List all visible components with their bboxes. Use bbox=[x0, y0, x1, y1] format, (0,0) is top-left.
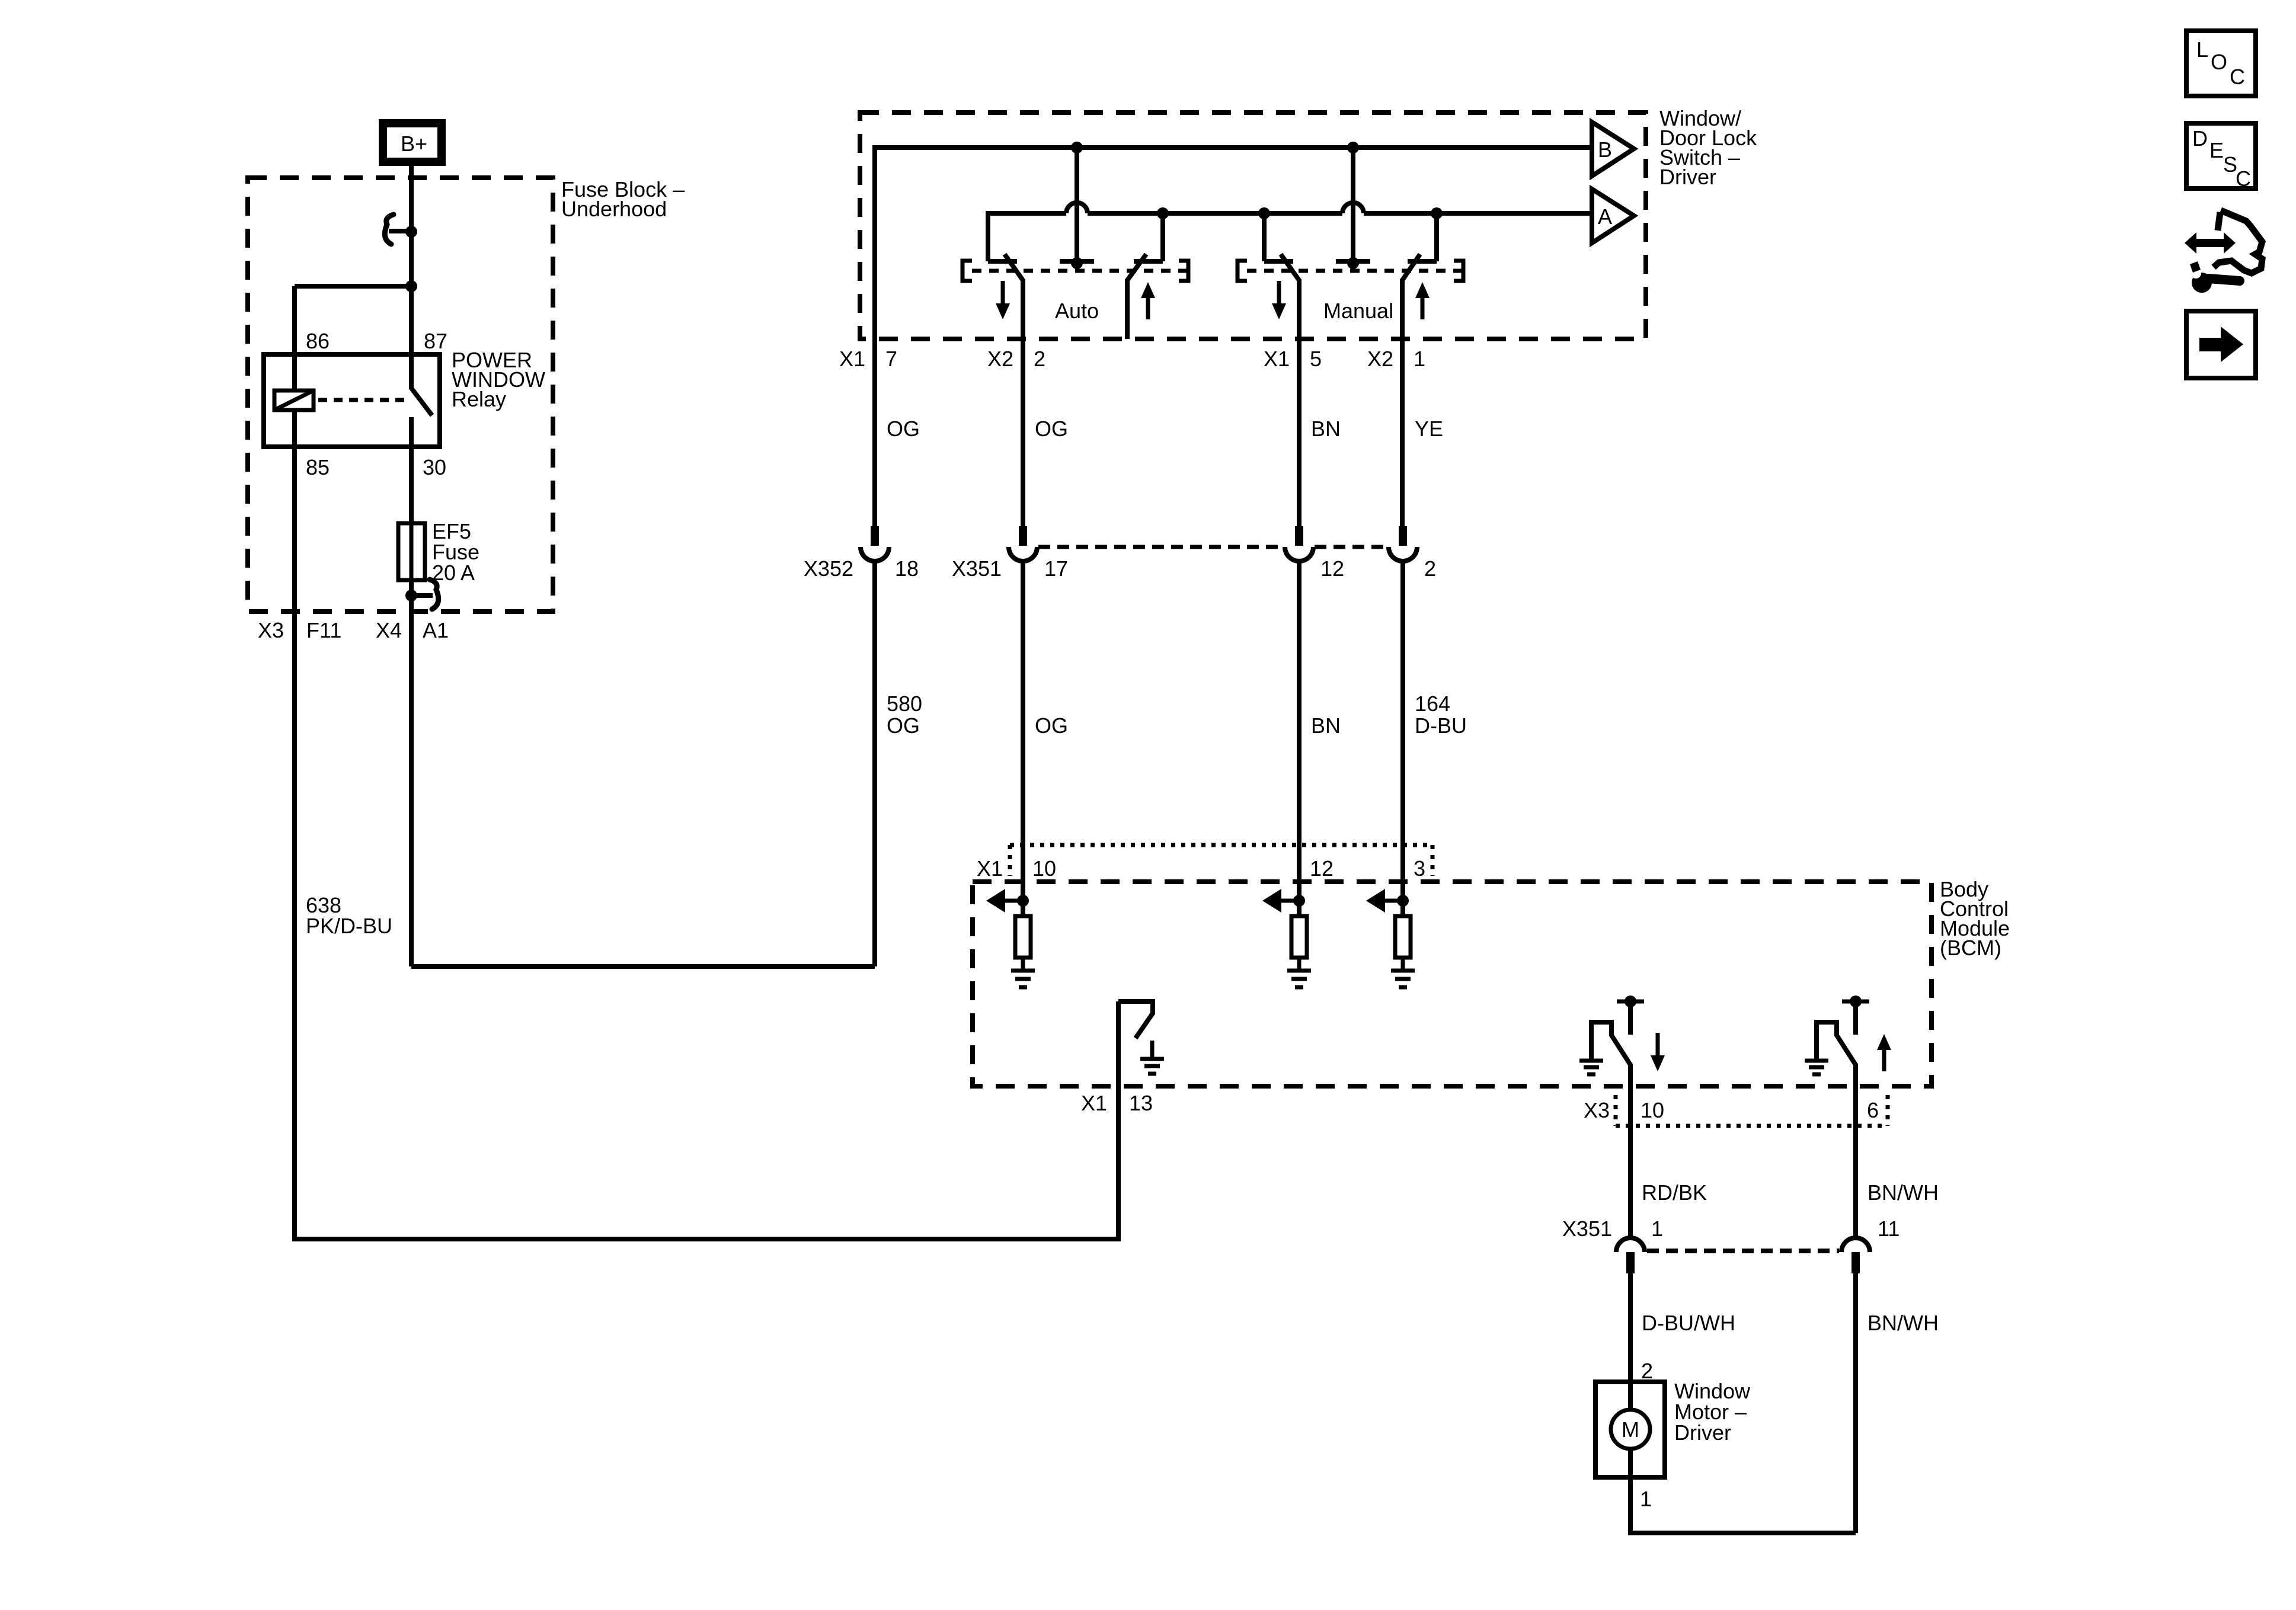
svg-text:5: 5 bbox=[1310, 347, 1322, 371]
bottom connector dashed link bbox=[1647, 1249, 1839, 1253]
svg-text:10: 10 bbox=[1641, 1098, 1664, 1122]
svg-text:RD/BK: RD/BK bbox=[1642, 1180, 1707, 1205]
svg-text:12: 12 bbox=[1310, 856, 1334, 881]
svg-text:L: L bbox=[2196, 37, 2208, 62]
svg-text:X3: X3 bbox=[1584, 1098, 1610, 1122]
wire A1 to 580 OG bbox=[411, 561, 875, 966]
BCM X1-13 switch to ground bbox=[1081, 1001, 1164, 1115]
triangle A output bbox=[1592, 189, 1634, 243]
connector X351 pin 2 bbox=[1389, 526, 1436, 581]
Auto common from net B bbox=[1060, 148, 1094, 269]
relay switch blade bbox=[411, 388, 432, 447]
wire B+ to relay pin 87 bbox=[409, 166, 414, 389]
svg-text:YE: YE bbox=[1415, 417, 1443, 441]
svg-text:Underhood: Underhood bbox=[561, 197, 667, 221]
connector X351 pin 11 bbox=[1841, 1217, 1900, 1273]
svg-text:30: 30 bbox=[423, 455, 446, 479]
Manual up switch bbox=[1402, 213, 1437, 526]
BCM input 10: arrow, resistor, ground bbox=[986, 889, 1035, 987]
wire X1-7 inside switch box bbox=[872, 339, 877, 526]
svg-text:A1: A1 bbox=[423, 618, 449, 642]
wire net B bbox=[875, 148, 1592, 526]
svg-text:OG: OG bbox=[1035, 417, 1068, 441]
wire relay 85 to F11 bbox=[292, 410, 297, 1241]
relay coil bbox=[274, 391, 314, 410]
svg-text:D: D bbox=[2192, 126, 2208, 151]
svg-text:D-BU: D-BU bbox=[1415, 713, 1467, 738]
connector X351 pin 1 bbox=[1562, 1217, 1663, 1273]
BCM output switch up (X3-6) bbox=[1805, 996, 1869, 1238]
junction dot below fuse bbox=[405, 590, 417, 601]
Manual up arrow bbox=[1415, 282, 1430, 319]
Auto up arrow bbox=[1141, 282, 1155, 319]
junction dots on net B bbox=[1071, 142, 1083, 153]
Auto up switch bbox=[1127, 213, 1163, 339]
svg-text:Driver: Driver bbox=[1674, 1420, 1731, 1445]
svg-text:X351: X351 bbox=[1562, 1217, 1612, 1241]
svg-text:(BCM): (BCM) bbox=[1940, 936, 2001, 960]
icon next arrow bbox=[2186, 311, 2256, 378]
svg-text:18: 18 bbox=[895, 556, 919, 581]
junction dots on net A bbox=[1157, 207, 1169, 219]
svg-text:O: O bbox=[2211, 50, 2227, 74]
svg-text:OG: OG bbox=[887, 713, 920, 738]
svg-text:164: 164 bbox=[1415, 692, 1450, 716]
svg-text:1: 1 bbox=[1640, 1487, 1652, 1511]
Manual common from net B bbox=[1336, 148, 1370, 269]
POWER WINDOW Relay bbox=[264, 329, 545, 479]
wire D-BU/WH to motor pin 2 bbox=[1630, 1273, 1735, 1383]
svg-text:X1: X1 bbox=[1081, 1091, 1107, 1115]
icon DESC bbox=[2186, 123, 2256, 191]
svg-text:X352: X352 bbox=[804, 556, 853, 581]
wire BN to BCM X1-12 bbox=[1299, 561, 1341, 916]
svg-text:1: 1 bbox=[1414, 347, 1425, 371]
BCM X1 dotted connector row bbox=[977, 845, 1432, 881]
wire net A with hops bbox=[988, 203, 1592, 261]
svg-text:B+: B+ bbox=[401, 132, 427, 156]
fuse EF5 20A bbox=[398, 519, 479, 585]
svg-text:X351: X351 bbox=[952, 556, 1002, 581]
svg-text:Auto: Auto bbox=[1055, 299, 1099, 323]
X3 dotted connector row bbox=[1584, 1095, 1888, 1126]
Auto down switch bbox=[988, 254, 1023, 526]
Window Motor - Driver bbox=[1595, 1379, 1751, 1511]
svg-text:PK/D-BU: PK/D-BU bbox=[306, 914, 392, 938]
clip connector below fuse bbox=[411, 580, 439, 609]
connector X352 pin 18 bbox=[804, 526, 919, 581]
Auto down arrow bbox=[996, 281, 1010, 319]
Body Control Module (BCM) dashed box bbox=[973, 877, 2010, 1086]
clip connector on B+ feed bbox=[385, 215, 411, 244]
svg-text:3: 3 bbox=[1414, 856, 1425, 881]
icon repair info: double arrow, outline, wrench bbox=[2185, 210, 2262, 293]
connector X351 pin 17 bbox=[952, 526, 1068, 581]
junction dot at clip bbox=[405, 226, 417, 238]
wire fuse to A1 bbox=[409, 580, 414, 966]
wire BN/WH lower bbox=[1856, 1273, 1939, 1533]
svg-text:E: E bbox=[2209, 138, 2224, 162]
svg-text:Relay: Relay bbox=[452, 387, 506, 411]
svg-text:13: 13 bbox=[1129, 1091, 1153, 1115]
BCM down arrow bbox=[1651, 1033, 1665, 1071]
svg-text:X1: X1 bbox=[839, 347, 865, 371]
svg-text:2: 2 bbox=[1424, 556, 1436, 581]
triangle B output bbox=[1592, 122, 1634, 176]
wire OG to BCM X1-10 bbox=[1023, 561, 1068, 916]
Fuse Block - Underhood dashed box bbox=[248, 177, 685, 612]
svg-text:X1: X1 bbox=[977, 856, 1003, 881]
svg-text:A: A bbox=[1598, 204, 1612, 229]
svg-text:X2: X2 bbox=[987, 347, 1013, 371]
svg-text:B: B bbox=[1598, 137, 1612, 162]
svg-text:C: C bbox=[2230, 65, 2245, 89]
wire motor pin 1 return bbox=[1630, 1477, 1856, 1533]
wire relay 30 to fuse EF5 bbox=[409, 447, 414, 523]
svg-text:11: 11 bbox=[1878, 1217, 1900, 1241]
Auto switch linkage brackets bbox=[962, 261, 1188, 281]
Manual down switch bbox=[1264, 213, 1299, 526]
svg-text:M: M bbox=[1622, 1417, 1639, 1442]
junction dot at branch bbox=[405, 280, 417, 292]
wire color labels row 1 bbox=[887, 417, 1443, 441]
svg-text:Driver: Driver bbox=[1659, 165, 1716, 189]
svg-text:D-BU/WH: D-BU/WH bbox=[1642, 1311, 1735, 1335]
svg-text:Manual: Manual bbox=[1323, 299, 1393, 323]
svg-text:2: 2 bbox=[1641, 1359, 1653, 1383]
svg-text:X1: X1 bbox=[1264, 347, 1290, 371]
svg-text:BN/WH: BN/WH bbox=[1868, 1311, 1939, 1335]
svg-text:20 A: 20 A bbox=[432, 561, 475, 585]
connector X351 pin 12 bbox=[1285, 526, 1344, 581]
wire branch to relay coil pin 86 bbox=[295, 286, 411, 391]
BCM input 3: arrow, resistor, ground bbox=[1366, 889, 1415, 987]
connector row dashed link bbox=[1038, 545, 1387, 549]
svg-text:OG: OG bbox=[1035, 713, 1068, 738]
svg-text:10: 10 bbox=[1032, 856, 1056, 881]
switch box pin labels bbox=[839, 347, 1425, 371]
svg-text:580: 580 bbox=[887, 692, 922, 716]
svg-text:OG: OG bbox=[887, 417, 920, 441]
svg-text:7: 7 bbox=[885, 347, 897, 371]
svg-text:86: 86 bbox=[306, 329, 330, 353]
svg-text:BN: BN bbox=[1311, 713, 1341, 738]
svg-text:6: 6 bbox=[1867, 1098, 1879, 1122]
svg-text:1: 1 bbox=[1651, 1217, 1663, 1241]
BCM up arrow bbox=[1877, 1034, 1891, 1071]
Window/Door Lock Switch - Driver dashed box bbox=[860, 106, 1757, 339]
svg-text:C: C bbox=[2236, 167, 2251, 191]
svg-text:F11: F11 bbox=[306, 618, 341, 642]
svg-text:X4: X4 bbox=[376, 618, 402, 642]
wire 580 OG bbox=[875, 561, 922, 966]
BCM input 12: arrow, resistor, ground bbox=[1262, 889, 1311, 987]
wire 638 PK/D-BU to BCM X1-13 bbox=[295, 893, 1118, 1241]
fuse block pin labels X3 F11 X4 A1 bbox=[258, 618, 449, 642]
svg-text:2: 2 bbox=[1034, 347, 1045, 371]
svg-text:85: 85 bbox=[306, 455, 330, 479]
icon LOC bbox=[2186, 31, 2256, 96]
wire 164 D-BU to BCM X1-3 bbox=[1403, 561, 1467, 916]
Manual switch linkage brackets bbox=[1237, 261, 1463, 281]
svg-text:17: 17 bbox=[1044, 556, 1068, 581]
svg-text:87: 87 bbox=[424, 329, 447, 353]
svg-text:12: 12 bbox=[1320, 556, 1344, 581]
svg-text:X2: X2 bbox=[1367, 347, 1393, 371]
svg-text:X3: X3 bbox=[258, 618, 284, 642]
relay linkage dashes bbox=[318, 398, 407, 402]
BCM output switch down (X3-10) bbox=[1579, 996, 1644, 1238]
Manual down arrow bbox=[1272, 281, 1286, 319]
B+ terminal bbox=[383, 123, 442, 162]
svg-text:BN/WH: BN/WH bbox=[1868, 1180, 1939, 1205]
svg-text:BN: BN bbox=[1311, 417, 1341, 441]
